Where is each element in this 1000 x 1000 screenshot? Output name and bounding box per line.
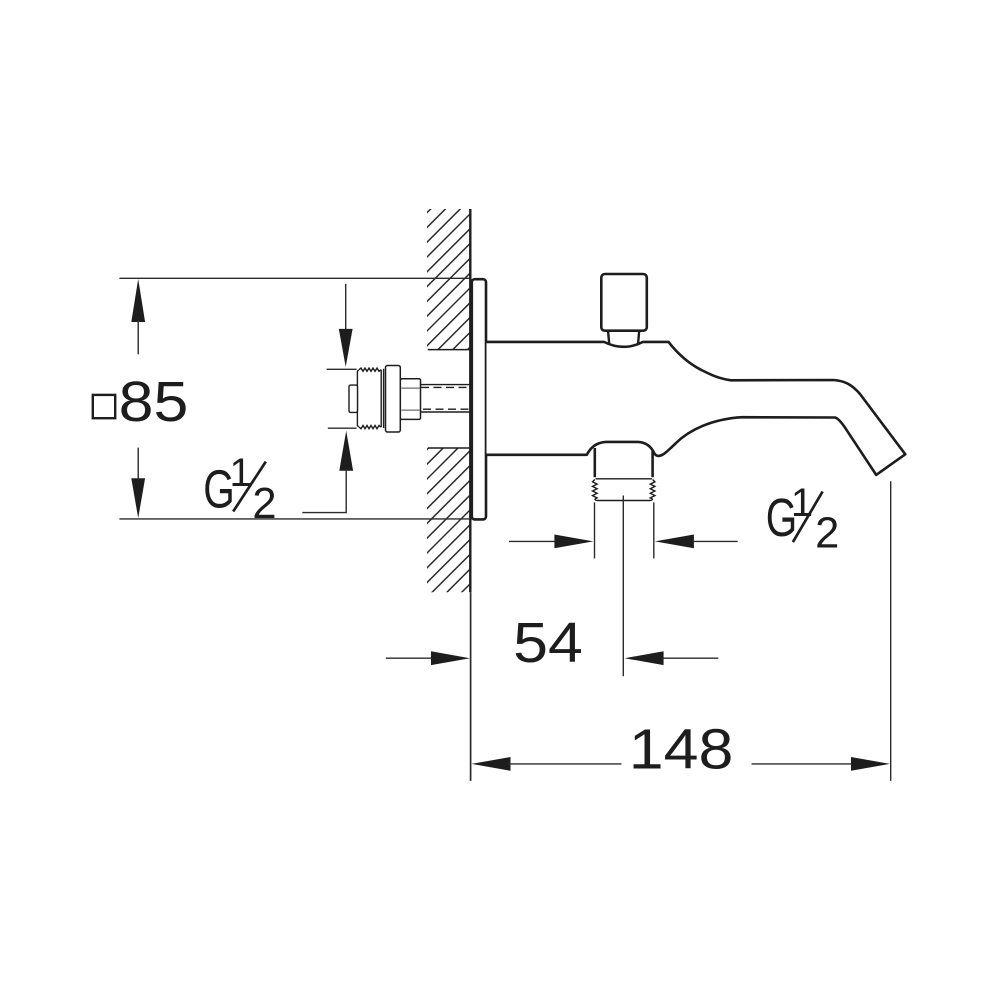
shower outlet thread shoulder — [596, 478, 653, 480]
dim 85 top extension line — [119, 277, 470, 279]
dim 54 left arrow — [386, 657, 432, 659]
inlet pipe threaded rod — [421, 385, 470, 412]
spout body fill — [487, 342, 906, 475]
svg-text:2: 2 — [252, 480, 276, 528]
inlet fitting knurled body — [357, 368, 383, 429]
svg-text:148: 148 — [629, 717, 734, 781]
dim 85 lower arrow — [131, 478, 145, 518]
dim 148 right extension line — [890, 481, 892, 781]
dim 148 left arrow — [472, 757, 511, 771]
wall hatching — [44, 205, 849, 596]
inlet fitting collar — [400, 379, 420, 420]
outlet dim left extension line — [594, 502, 596, 558]
wall opening upper edge — [428, 349, 470, 351]
dim 85 upper arrow — [131, 279, 145, 322]
dim 148 left extension line (wall) — [470, 592, 472, 781]
inlet dim upper tick — [327, 368, 357, 370]
outlet centerline — [622, 496, 624, 677]
inlet dim upper arrow — [345, 284, 347, 331]
spout outline — [487, 342, 906, 475]
shower outlet thread (G1/2) — [593, 480, 598, 500]
diverter knob — [601, 274, 647, 331]
shower outlet right side — [651, 450, 654, 477]
dim 85 bottom extension line — [119, 518, 470, 520]
dim 148 right arrow — [752, 763, 854, 765]
outlet dim right arrow — [655, 535, 694, 549]
outlet dim right extension line — [653, 502, 655, 558]
svg-text:1: 1 — [791, 481, 813, 525]
dim 85 square symbol — [93, 395, 115, 418]
inlet dim lower arrow and leader — [339, 431, 353, 471]
wall plate (escutcheon, side view) — [472, 279, 486, 519]
inlet fitting flange — [386, 366, 401, 433]
svg-text:85: 85 — [119, 370, 189, 434]
inlet dim lower tick — [328, 427, 357, 429]
diverter knob neck — [608, 331, 609, 345]
inlet fitting end cap — [349, 385, 358, 412]
shower outlet left side — [593, 448, 596, 477]
outlet dim left arrow — [509, 540, 556, 542]
dim 54 right arrow — [625, 651, 664, 665]
svg-text:54: 54 — [513, 611, 583, 675]
svg-text:2: 2 — [815, 510, 839, 558]
wall opening lower edge — [428, 447, 470, 449]
wall surface line — [469, 209, 471, 592]
